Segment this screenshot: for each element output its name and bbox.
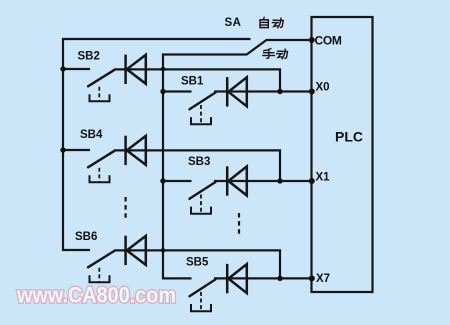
svg-text:X0: X0 <box>316 82 330 94</box>
svg-text:PLC: PLC <box>335 129 363 145</box>
svg-text:SB4: SB4 <box>80 129 103 141</box>
svg-text:X7: X7 <box>316 273 330 285</box>
svg-text:X1: X1 <box>316 172 331 184</box>
svg-text:SB1: SB1 <box>181 76 204 88</box>
svg-text:SB5: SB5 <box>186 257 209 269</box>
svg-text:SB2: SB2 <box>78 51 100 63</box>
svg-text:COM: COM <box>315 34 342 48</box>
svg-text:SB6: SB6 <box>75 231 97 243</box>
svg-text:SB3: SB3 <box>188 156 210 168</box>
svg-text:SA: SA <box>225 17 242 29</box>
svg-text:www.CA800.com: www.CA800.com <box>16 283 176 308</box>
